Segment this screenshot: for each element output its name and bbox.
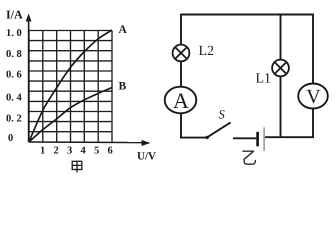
svg-text:0. 4: 0. 4 <box>6 93 23 104</box>
svg-text:0. 8: 0. 8 <box>6 49 22 60</box>
svg-text:S: S <box>219 108 226 122</box>
svg-text:1: 1 <box>40 146 45 157</box>
svg-text:U/V: U/V <box>137 150 156 162</box>
svg-text:2: 2 <box>54 146 59 157</box>
svg-text:L2: L2 <box>199 44 215 59</box>
svg-text:A: A <box>119 24 128 36</box>
svg-text:4: 4 <box>81 146 87 157</box>
svg-text:0. 6: 0. 6 <box>6 70 22 81</box>
svg-text:B: B <box>119 81 127 93</box>
svg-text:3: 3 <box>67 146 72 157</box>
svg-text:5: 5 <box>94 146 99 157</box>
svg-text:0. 2: 0. 2 <box>6 114 22 125</box>
svg-text:0: 0 <box>8 133 13 144</box>
svg-text:1. 0: 1. 0 <box>6 28 22 39</box>
svg-text:A: A <box>173 88 189 113</box>
svg-text:L1: L1 <box>256 72 272 87</box>
svg-text:I/A: I/A <box>6 8 23 22</box>
svg-text:6: 6 <box>108 146 113 157</box>
svg-text:V: V <box>306 86 321 108</box>
